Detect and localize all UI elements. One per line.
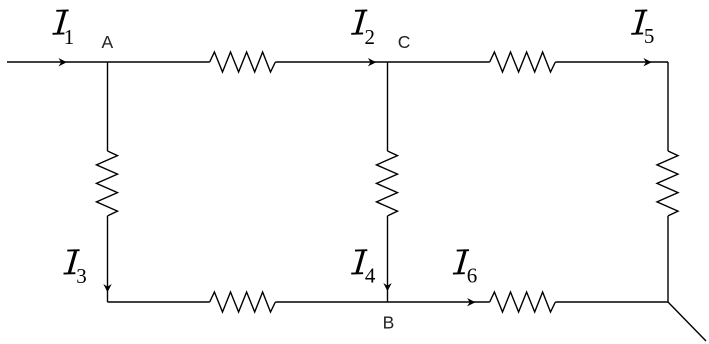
svg-text:5: 5 — [644, 24, 655, 48]
svg-text:B: B — [383, 313, 395, 333]
arrow I4 current direction — [383, 283, 391, 291]
wire middle branch upper (node C down) — [387, 62, 389, 151]
label I2 — [351, 10, 367, 33]
wire left branch upper (node A down) — [107, 62, 109, 151]
wire resistor R1 to node C — [275, 61, 387, 63]
svg-text:4: 4 — [365, 263, 376, 287]
svg-text:3: 3 — [76, 264, 87, 288]
wire input lead to node A — [7, 61, 108, 63]
svg-text:A: A — [102, 32, 114, 52]
arrow I1 current direction — [59, 58, 67, 66]
arrow I3 current direction — [103, 284, 111, 292]
resistor R2 — [490, 52, 556, 72]
svg-text:2: 2 — [365, 25, 376, 49]
label I3 — [64, 250, 80, 273]
wire resistor R7 to bottom right corner — [555, 301, 668, 303]
resistor R7 — [490, 292, 556, 312]
wire middle branch lower to node B — [387, 216, 389, 302]
label I1 — [53, 10, 69, 33]
resistor R3 — [97, 151, 118, 216]
resistor R4 — [377, 151, 398, 216]
wire node B to resistor R7 — [388, 301, 490, 303]
wire node C to resistor R2 — [388, 61, 490, 63]
arrow I2 current direction — [368, 58, 376, 66]
arrow I6 current direction — [467, 298, 475, 306]
wire node A to resistor R1 — [108, 61, 210, 63]
wire resistor R2 to top right corner — [555, 61, 668, 63]
svg-text:1: 1 — [64, 25, 75, 49]
wire left branch lower to bottom wire — [107, 216, 109, 302]
resistor R6 — [210, 292, 276, 312]
resistor R1 — [210, 52, 276, 72]
label I5 — [631, 10, 647, 33]
label I4 — [351, 250, 367, 273]
wire right branch lower to bottom right corner — [667, 216, 669, 302]
label I6 — [453, 250, 469, 273]
wire diagonal output lead — [668, 302, 706, 341]
svg-text:6: 6 — [467, 264, 478, 288]
resistor R5 — [657, 151, 678, 216]
wire bottom left corner to resistor R6 — [108, 301, 210, 303]
wire right branch upper (top right corner down) — [667, 62, 669, 151]
arrow I5 current direction — [643, 58, 651, 66]
svg-text:C: C — [398, 32, 411, 52]
wire resistor R6 to node B — [275, 301, 387, 303]
